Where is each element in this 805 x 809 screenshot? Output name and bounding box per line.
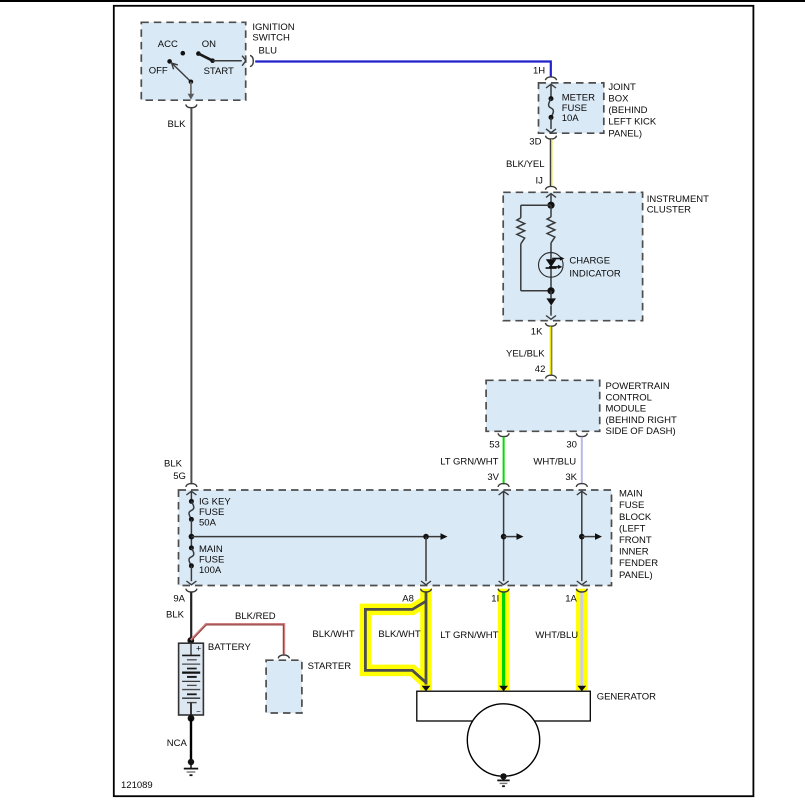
pin arrow 3K into block <box>577 491 587 495</box>
svg-text:FUSE: FUSE <box>199 507 224 518</box>
svg-text:+: + <box>196 644 201 654</box>
svg-text:42: 42 <box>535 364 546 375</box>
wire BLU from ignition switch to joint box <box>255 62 551 78</box>
top page rule <box>0 0 805 2</box>
junction node battery negative <box>188 715 195 722</box>
junction node battery positive <box>187 637 194 644</box>
wire 1I column <box>503 491 505 581</box>
svg-text:WHT/BLU: WHT/BLU <box>533 457 576 468</box>
svg-text:LT GRN/WHT: LT GRN/WHT <box>440 457 498 468</box>
svg-text:121089: 121089 <box>121 780 153 791</box>
svg-text:INNER: INNER <box>619 547 649 558</box>
switch wiper arrow toward OFF <box>172 64 191 82</box>
ground G1 below battery <box>188 759 194 765</box>
wire resistor to lamp <box>550 243 552 291</box>
svg-text:FENDER: FENDER <box>619 558 658 569</box>
meter fuse F1 10A <box>549 96 554 101</box>
wire BLK/WHT loop detour <box>365 601 426 682</box>
wire to junction <box>550 194 552 206</box>
meter fuse F1 lead <box>550 84 552 98</box>
wire BLK/RED to starter <box>191 624 284 654</box>
left branch wire <box>521 204 551 206</box>
svg-text:ACC: ACC <box>158 39 178 50</box>
svg-text:NCA: NCA <box>167 738 188 749</box>
svg-text:GENERATOR: GENERATOR <box>597 692 656 703</box>
wire LT GRN/WHT PCM to fuse block <box>503 437 505 485</box>
svg-text:10A: 10A <box>562 113 580 124</box>
svg-text:BLK: BLK <box>168 119 187 130</box>
junction node top <box>547 202 554 209</box>
svg-text:POWERTRAIN: POWERTRAIN <box>606 381 670 392</box>
svg-text:OFF: OFF <box>149 66 168 77</box>
fuse MAIN 100A <box>189 545 194 550</box>
svg-text:YEL/BLK: YEL/BLK <box>506 348 545 359</box>
svg-text:30: 30 <box>566 440 577 451</box>
generator G body <box>417 691 591 721</box>
battery bottom stem <box>190 703 192 719</box>
pin arrow A8 out of block <box>421 581 431 585</box>
wire between fuses <box>190 519 192 548</box>
svg-text:BOX: BOX <box>608 93 629 104</box>
svg-text:BATTERY: BATTERY <box>208 642 252 653</box>
svg-text:WHT/BLU: WHT/BLU <box>535 630 578 641</box>
wire BLK fuse block to battery <box>190 592 192 640</box>
connector cup 53 below PCM <box>498 433 509 436</box>
wire WHT/BLU PCM to fuse block <box>581 437 583 485</box>
connector cup 9A <box>186 589 197 592</box>
connector cup 3V at fuse block top <box>498 484 509 487</box>
svg-text:−: − <box>196 707 201 716</box>
svg-text:MAIN: MAIN <box>619 489 643 500</box>
svg-text:FUSE: FUSE <box>619 500 644 511</box>
svg-text:(BEHIND RIGHT: (BEHIND RIGHT <box>606 415 677 426</box>
pin arrow out of cluster <box>546 316 556 320</box>
connector cup A8 over highlight <box>420 589 431 592</box>
IG KEY fuse lead <box>190 491 192 501</box>
diagram frame <box>114 6 754 796</box>
svg-text:100A: 100A <box>199 565 222 576</box>
svg-text:ON: ON <box>202 39 216 50</box>
svg-text:3D: 3D <box>529 136 541 147</box>
svg-text:3K: 3K <box>565 472 577 483</box>
svg-text:1I: 1I <box>491 594 499 605</box>
connector cup 1I over highlight <box>498 589 509 592</box>
connector cup 1K below cluster <box>545 323 556 326</box>
battery plates <box>182 654 200 656</box>
instrument cluster dashed enclosure <box>503 192 642 320</box>
connector cup 3K at fuse block top <box>576 484 587 487</box>
svg-text:50A: 50A <box>199 518 217 529</box>
connector cup at starter <box>278 655 289 658</box>
svg-text:INDICATOR: INDICATOR <box>569 269 621 280</box>
LED cathode bar <box>546 267 557 269</box>
junction node 1A column <box>579 534 585 540</box>
connector cup 30 below PCM <box>576 433 587 436</box>
ground G2 below generator <box>500 773 506 779</box>
wiper pivot <box>189 80 194 85</box>
pin arrow 1A out of block <box>577 581 587 585</box>
fuse IG KEY 50A <box>189 499 194 504</box>
branch arrow 1A <box>582 536 595 538</box>
connector cup 1A over highlight <box>576 589 587 592</box>
svg-text:A8: A8 <box>402 594 414 605</box>
wire to cluster exit <box>550 291 552 299</box>
svg-text:SWITCH: SWITCH <box>252 33 290 44</box>
wire A8 column <box>425 537 427 582</box>
wire NCA battery to ground <box>190 718 192 760</box>
svg-text:FUSE: FUSE <box>562 103 587 114</box>
battery positive stem <box>190 643 192 656</box>
wire BLK ignition switch to fuse block <box>190 108 192 485</box>
junction node to horizontal bus <box>189 534 195 540</box>
svg-text:STARTER: STARTER <box>308 661 352 672</box>
contact ACC <box>181 51 186 56</box>
pin arrow into cluster <box>546 194 556 198</box>
svg-text:9A: 9A <box>173 594 185 605</box>
svg-text:5G: 5G <box>173 471 186 482</box>
current direction arrow <box>546 298 556 305</box>
svg-text:BLK/WHT: BLK/WHT <box>378 629 420 640</box>
LED emission arrow 2 <box>549 266 558 268</box>
svg-text:BLK: BLK <box>166 609 185 620</box>
pin arrow into joint box <box>546 84 556 88</box>
pin arrow right exit <box>242 56 246 66</box>
contact ON <box>196 51 201 56</box>
svg-text:MAIN: MAIN <box>199 544 223 555</box>
wire YEL/BLK cluster to PCM <box>550 326 552 374</box>
switch lever ON-START <box>198 54 212 61</box>
wire WHT/BLU thick <box>580 592 583 686</box>
junction node 1I column <box>501 534 507 540</box>
svg-text:CHARGE: CHARGE <box>569 256 610 267</box>
left branch lower wire <box>520 244 522 291</box>
pin arrow 5G into block <box>186 491 196 495</box>
svg-text:LT GRN/WHT: LT GRN/WHT <box>440 630 498 641</box>
svg-text:CLUSTER: CLUSTER <box>647 204 691 215</box>
horizontal bus wire <box>191 536 440 538</box>
powertrain control module dashed enclosure <box>486 380 600 431</box>
connector cup 3D below joint box <box>545 136 556 139</box>
svg-text:CONTROL: CONTROL <box>606 392 652 403</box>
main fuse block dashed enclosure <box>179 490 612 586</box>
svg-text:PANEL): PANEL) <box>619 570 653 581</box>
wire BLK/WHT thick vertical <box>425 592 428 684</box>
wire fuse to 9A exit <box>190 566 192 581</box>
connector cup 42 at PCM top <box>545 375 556 378</box>
svg-text:1A: 1A <box>565 594 577 605</box>
svg-text:1K: 1K <box>531 327 543 338</box>
wire BLK/YEL joint box to instrument cluster <box>549 139 551 186</box>
svg-text:BLK/WHT: BLK/WHT <box>312 629 354 640</box>
svg-text:FUSE: FUSE <box>199 555 224 566</box>
bus arrowhead <box>441 533 448 540</box>
junction node A8 column <box>423 534 429 540</box>
contact OFF <box>167 59 172 64</box>
LED emission arrow 1 <box>552 258 560 260</box>
generator rotor circle <box>467 704 539 776</box>
svg-text:BLOCK: BLOCK <box>619 512 652 523</box>
wire LT GRN/WHT thick <box>502 592 505 686</box>
svg-text:INSTRUMENT: INSTRUMENT <box>647 194 709 205</box>
svg-text:IGNITION: IGNITION <box>252 22 294 33</box>
svg-text:JOINT: JOINT <box>608 82 636 93</box>
arrow BLK/WHT into generator <box>422 686 431 691</box>
arrow LT GRN/WHT into generator <box>499 686 508 691</box>
svg-text:BLK/YEL: BLK/YEL <box>506 159 545 170</box>
connector cup bottom exit <box>186 104 197 107</box>
wire to right exit <box>213 60 242 62</box>
svg-text:1H: 1H <box>533 65 545 76</box>
connector cup IJ at cluster top <box>545 186 556 189</box>
svg-text:MODULE: MODULE <box>606 404 647 415</box>
svg-text:BLK: BLK <box>164 459 183 470</box>
main branch wire <box>550 205 552 217</box>
svg-text:PANEL): PANEL) <box>608 128 642 139</box>
arrow WHT/BLU into generator <box>577 686 586 691</box>
battery B1 body <box>179 643 204 715</box>
svg-text:SIDE OF DASH): SIDE OF DASH) <box>606 426 676 437</box>
connector cup 1H at joint box top <box>545 77 556 80</box>
svg-text:BLU: BLU <box>259 46 278 57</box>
svg-text:53: 53 <box>489 440 500 451</box>
resistor R1 left branch <box>517 218 525 244</box>
charge indicator lamp circle <box>539 253 564 278</box>
fuse exit lead <box>550 117 552 129</box>
pin arrow out of joint box <box>546 129 556 133</box>
svg-text:3V: 3V <box>487 472 499 483</box>
resistor R2 main branch <box>547 217 555 243</box>
svg-text:(LEFT: (LEFT <box>619 523 646 534</box>
svg-text:START: START <box>204 66 234 77</box>
svg-text:BLK/RED: BLK/RED <box>235 611 276 622</box>
svg-text:(BEHIND: (BEHIND <box>608 105 647 116</box>
pin arrow bottom exit <box>188 94 195 100</box>
svg-text:IG KEY: IG KEY <box>199 497 231 508</box>
starter M1 dashed enclosure <box>266 660 302 713</box>
yellow highlight BLK/WHT circuit trace <box>420 589 432 691</box>
svg-text:METER: METER <box>562 92 595 103</box>
ignition switch S1 box <box>141 22 245 100</box>
wire down inside switch <box>190 82 192 94</box>
branch arrow 1I <box>504 536 517 538</box>
wire 1A column <box>581 491 583 581</box>
svg-text:FRONT: FRONT <box>619 535 652 546</box>
yellow highlight LT GRN/WHT trace <box>498 589 510 691</box>
joint box dashed enclosure <box>539 83 604 133</box>
pin arrow 1I out of block <box>499 581 509 585</box>
junction node bottom <box>547 287 554 294</box>
pin arrow 9A out of block <box>186 581 196 585</box>
yellow highlight WHT/BLU trace <box>576 589 588 691</box>
connector cup right exit <box>250 55 253 66</box>
svg-text:LEFT KICK: LEFT KICK <box>608 117 657 128</box>
LED triangle <box>546 259 557 267</box>
pin arrow 3V into block <box>499 491 509 495</box>
svg-text:IJ: IJ <box>536 176 544 187</box>
connector cup 5G at fuse block top <box>186 484 197 487</box>
